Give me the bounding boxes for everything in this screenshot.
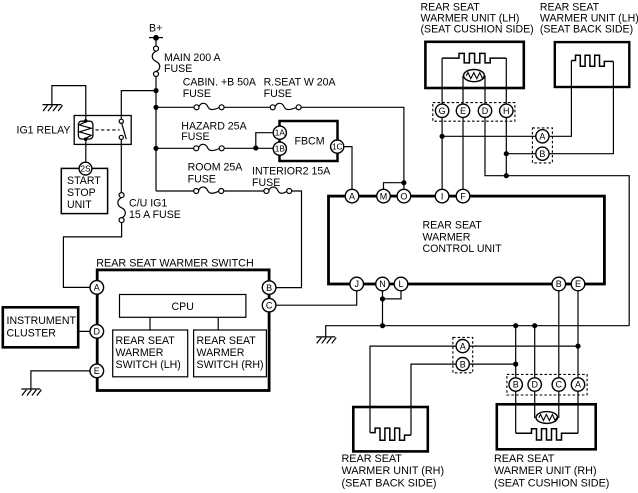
wire C/U fuse to switch A (63, 223, 121, 288)
wire A(LH) to back unit left (542, 61, 571, 137)
svg-text:2S: 2S (80, 164, 91, 174)
box REAR SEAT WARMER SWITCH (LH) (113, 330, 188, 377)
wire relay coil to 2S (85, 139, 87, 163)
fuse R.SEAT W 20A (275, 103, 296, 109)
box CPU (120, 295, 246, 318)
wire fuse row3 segment b (224, 190, 264, 192)
fuse ROOM 25A (199, 187, 219, 193)
svg-text:L: L (398, 279, 403, 289)
svg-text:(SEAT BACK SIDE): (SEAT BACK SIDE) (342, 477, 437, 489)
wire E connector chain (thermostat to F) (462, 76, 464, 197)
box REAR SEAT WARMER UNIT (LH) (SEAT CUSHION SIDE) (425, 42, 523, 88)
relay coil (78, 121, 93, 139)
svg-text:UNIT: UNIT (67, 199, 92, 211)
wire switch E to ground (31, 371, 97, 389)
node B+ junction (153, 35, 159, 41)
junction ground bus / RH D (532, 323, 537, 328)
heater element (LH cushion) (442, 53, 506, 63)
svg-text:START: START (67, 175, 101, 187)
heater element (RH cushion) (516, 429, 578, 440)
wire fuse row3 to switch B (269, 191, 301, 288)
connector ctrl N (376, 277, 390, 291)
svg-text:1A: 1A (275, 128, 286, 138)
junction M/O (401, 180, 406, 185)
junction ground bus / N (380, 323, 385, 328)
svg-text:F: F (460, 191, 466, 201)
svg-text:FUSE: FUSE (183, 88, 211, 100)
thermostat (RH cushion) (536, 412, 558, 424)
svg-text:SWITCH (RH): SWITCH (RH) (197, 359, 264, 371)
svg-text:H: H (503, 106, 510, 116)
wire ground to relay coil (52, 86, 86, 121)
svg-text:J: J (354, 279, 359, 289)
svg-text:D: D (531, 380, 538, 390)
svg-text:WARMER: WARMER (116, 347, 164, 359)
connector ctrl J (350, 277, 364, 291)
heater element (LH back) (571, 55, 613, 66)
svg-text:E: E (94, 366, 100, 376)
connector A (LH pair) (536, 130, 549, 143)
wire trunk below main fuse (155, 77, 157, 191)
connector switch D (90, 325, 104, 339)
svg-text:A: A (349, 191, 355, 201)
fuse HAZARD 25A (199, 144, 220, 150)
svg-text:INSTRUMENT: INSTRUMENT (7, 315, 77, 327)
connector ctrl A (345, 189, 359, 203)
wire CPU leg left (149, 317, 151, 330)
svg-text:ROOM 25A: ROOM 25A (188, 162, 244, 174)
svg-text:STOP: STOP (67, 187, 96, 199)
svg-text:CLUSTER: CLUSTER (7, 327, 57, 339)
svg-text:REAR SEAT: REAR SEAT (342, 453, 403, 465)
connector ctrl O (397, 189, 411, 203)
junction trunk/row1 (153, 105, 158, 110)
wire B+ to main fuse (155, 38, 157, 46)
ground (control unit / heater return) (316, 337, 336, 344)
wire D chain to right edge ground (485, 76, 629, 326)
svg-text:FUSE: FUSE (164, 63, 192, 75)
junction B(RH) / RH B wire (513, 362, 518, 367)
svg-text:R.SEAT W 20A: R.SEAT W 20A (264, 76, 337, 88)
svg-text:15 A FUSE: 15 A FUSE (129, 209, 181, 221)
svg-text:B: B (266, 283, 272, 293)
connector 1C (331, 140, 344, 153)
junction ground bus / RH B (513, 323, 518, 328)
connector G (435, 104, 448, 117)
junction 1A/1B (253, 145, 258, 150)
connector 1A (273, 126, 286, 139)
svg-text:G: G (439, 106, 446, 116)
connector switch E (90, 364, 104, 378)
dashed connector box G E D H (433, 103, 515, 122)
svg-text:CPU: CPU (172, 301, 194, 313)
svg-text:CABIN. +B 50A: CABIN. +B 50A (183, 76, 257, 88)
ground (switch E) (21, 389, 41, 396)
svg-text:(SEAT CUSHION SIDE): (SEAT CUSHION SIDE) (421, 24, 534, 36)
connector A (RH pair) (456, 340, 469, 353)
svg-text:WARMER UNIT (RH): WARMER UNIT (RH) (494, 465, 597, 477)
box REAR SEAT WARMER SWITCH (97, 270, 269, 391)
svg-text:B: B (460, 359, 466, 369)
svg-text:INTERIOR2 15A: INTERIOR2 15A (252, 166, 331, 178)
wire B(RH) to RH back unit right (411, 364, 463, 435)
svg-text:WARMER: WARMER (423, 231, 471, 243)
svg-text:IG1 RELAY: IG1 RELAY (17, 125, 71, 137)
dashed connector box A B (RH) (453, 337, 473, 372)
svg-text:REAR SEAT: REAR SEAT (423, 220, 483, 232)
wire instrument cluster to D (78, 330, 97, 332)
svg-text:REAR SEAT: REAR SEAT (116, 335, 176, 347)
connector switch C (262, 298, 276, 312)
box REAR SEAT WARMER UNIT (RH) (SEAT CUSHION SIDE) (497, 404, 596, 449)
connector switch B (262, 281, 276, 295)
heater element (RH back) (370, 428, 411, 440)
wire A(LH) to G junction (442, 135, 542, 137)
svg-text:C: C (556, 380, 563, 390)
svg-text:B: B (513, 380, 519, 390)
connector RH D (528, 378, 541, 391)
wire trunk to relay contact (121, 91, 156, 120)
svg-text:D: D (94, 327, 101, 337)
wire relay contact to C/U fuse (120, 139, 122, 192)
svg-text:B+: B+ (149, 23, 162, 35)
junction E wire / A(RH) (575, 344, 580, 349)
svg-text:(SEAT BACK SIDE): (SEAT BACK SIDE) (540, 24, 633, 36)
wire B(RH) to ground net junction (463, 363, 516, 365)
connector B (RH pair) (456, 358, 469, 371)
svg-text:WARMER UNIT (LH): WARMER UNIT (LH) (540, 12, 638, 24)
svg-text:O: O (400, 191, 407, 201)
fuse MAIN 200 A (152, 51, 160, 71)
box REAR SEAT WARMER UNIT (LH) (SEAT BACK SIDE) (555, 42, 630, 87)
wire CPU leg right (217, 317, 219, 330)
wire fuse row1 to connector O (301, 107, 404, 196)
wire A(RH) to RH back unit left (370, 346, 463, 433)
dashed connector box B D C A (507, 374, 587, 395)
dashed connector box A B (LH) (532, 128, 552, 163)
svg-text:WARMER: WARMER (197, 347, 245, 359)
wire B(LH) to back unit right (542, 61, 613, 153)
svg-text:D: D (482, 106, 489, 116)
fuse CABIN. +B 50A (199, 103, 220, 109)
box REAR SEAT WARMER UNIT (RH) (SEAT BACK SIDE) (353, 407, 428, 451)
thermostat (LH cushion) (464, 70, 485, 82)
connector ctrl E (571, 277, 585, 291)
connector E (LH) (456, 104, 469, 117)
junction trunk/row2 (153, 146, 158, 151)
connector 1B (273, 142, 286, 155)
wire connector L to N (383, 284, 402, 299)
node B+ terminal bar (149, 37, 163, 39)
svg-text:FUSE: FUSE (181, 131, 209, 143)
wire RH cushion B connector (515, 326, 517, 434)
svg-text:A: A (94, 283, 100, 293)
svg-text:I: I (441, 191, 444, 201)
svg-text:C: C (266, 300, 273, 310)
connector ctrl F (456, 189, 470, 203)
wire G connector chain (heater to I) (441, 58, 443, 196)
wire H chain (505, 58, 507, 176)
connector H (500, 104, 513, 117)
svg-text:REAR SEAT: REAR SEAT (197, 335, 257, 347)
svg-text:N: N (379, 279, 386, 289)
relay contact (119, 119, 123, 123)
fuse C/U IG1 15 A (118, 198, 126, 218)
svg-text:A: A (539, 132, 545, 142)
svg-text:REAR SEAT: REAR SEAT (494, 453, 555, 465)
junction H wire / B(LH) (504, 151, 509, 156)
connector ctrl B (552, 277, 566, 291)
box INSTRUMENT CLUSTER (3, 307, 78, 347)
svg-text:CONTROL UNIT: CONTROL UNIT (423, 243, 503, 255)
svg-text:B: B (556, 279, 562, 289)
connector switch A (90, 281, 104, 295)
wire ground bus (326, 326, 630, 337)
svg-text:B: B (539, 149, 545, 159)
wire B(LH) to H junction (506, 153, 542, 155)
svg-text:M: M (380, 191, 388, 201)
connector ctrl I (435, 189, 449, 203)
svg-text:FUSE: FUSE (188, 174, 216, 186)
svg-text:C/U IG1: C/U IG1 (129, 197, 167, 209)
svg-text:WARMER UNIT (RH): WARMER UNIT (RH) (342, 465, 445, 477)
box REAR SEAT WARMER SWITCH (RH) (194, 330, 267, 377)
svg-text:A: A (460, 341, 466, 351)
wire connector N to ground bus (382, 284, 384, 326)
junction N/L (380, 296, 385, 301)
wire fuse row2 segment a (156, 147, 194, 149)
wire fuse row3 segment a (156, 190, 194, 192)
connector ctrl L (394, 277, 408, 291)
svg-text:E: E (460, 106, 466, 116)
svg-text:SWITCH (LH): SWITCH (LH) (116, 359, 181, 371)
connector B (LH pair) (536, 147, 549, 160)
connector 2S (79, 162, 92, 175)
svg-text:(SEAT CUSHION SIDE): (SEAT CUSHION SIDE) (494, 477, 609, 489)
box FBCM (280, 121, 338, 161)
wire branch to 1A (256, 133, 274, 149)
junction G wire / A(LH) (440, 134, 445, 139)
wire switch C to connector J (269, 284, 357, 305)
connector RH B (509, 378, 522, 391)
junction H wire / D line (504, 173, 509, 178)
wire fuse row1 segment b (224, 106, 270, 108)
wire control B to RH thermostat (558, 284, 560, 418)
svg-text:FBCM: FBCM (295, 136, 325, 148)
svg-text:A: A (575, 380, 581, 390)
svg-text:FUSE: FUSE (264, 88, 292, 100)
svg-text:1B: 1B (275, 144, 286, 154)
ground (IG1 relay circuit) (43, 105, 63, 112)
connector RH C (552, 378, 565, 391)
wire 1C to connector A (337, 147, 352, 197)
junction trunk/relay (153, 88, 158, 93)
wire fuse row2 segment b (224, 147, 273, 149)
svg-text:E: E (575, 279, 581, 289)
wire A(RH) to E junction (463, 345, 578, 347)
svg-text:FUSE: FUSE (252, 177, 280, 189)
fuse INTERIOR2 15A (269, 187, 287, 193)
svg-text:WARMER UNIT (LH): WARMER UNIT (LH) (421, 12, 520, 24)
svg-text:1C: 1C (332, 142, 343, 152)
connector ctrl M (377, 189, 391, 203)
box REAR SEAT WARMER CONTROL UNIT (329, 196, 605, 284)
wire RH cushion D connector (534, 326, 536, 418)
wire fuse row1 segment a (156, 106, 194, 108)
wire branch to connector M (384, 183, 404, 196)
connector RH A (571, 378, 584, 391)
svg-text:REAR SEAT WARMER SWITCH: REAR SEAT WARMER SWITCH (96, 258, 254, 270)
relay IG1 box (74, 116, 131, 145)
wire control E to RH comb via A (577, 284, 579, 433)
box START STOP UNIT (61, 168, 107, 213)
connector D (LH) (478, 104, 491, 117)
